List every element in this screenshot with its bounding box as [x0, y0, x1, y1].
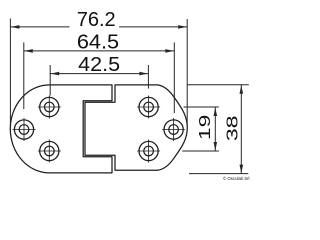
dimension 64.5: [24, 42, 175, 113]
hole H6 crosshair vertical: [173, 118, 175, 141]
dim 42.5 right extension line: [147, 65, 149, 89]
dim 64.5 left extension line: [23, 42, 25, 109]
hole H1 crosshair horizontal: [13, 129, 36, 131]
dim 76.2 dimension line right segment: [119, 26, 187, 28]
dim 42.5 left arrowhead: [51, 72, 60, 76]
screw hole left-middle: [13, 118, 36, 141]
svg-text:76.2: 76.2: [77, 9, 116, 31]
dimension 42.5: [50, 65, 148, 96]
right hinge leaf: [85, 85, 187, 170]
dimension 19: [182, 107, 219, 151]
screw hole right-bottom: [137, 140, 160, 163]
hole H3 left-bottom inner circle: [45, 146, 55, 156]
screw hole right-middle: [162, 118, 185, 141]
hole H4 right-top inner circle: [144, 102, 154, 112]
dim 38 bottom extension line: [189, 173, 248, 175]
hole H1 left-middle outer circle: [14, 120, 33, 139]
hole H2 left-top inner circle: [45, 102, 55, 112]
screw hole left-top: [38, 96, 61, 119]
hole H6 right-middle outer circle: [164, 120, 183, 139]
dim 64.5 dimension line: [24, 50, 175, 52]
dim 19 top extension line: [184, 106, 219, 108]
hole H2 crosshair vertical: [48, 96, 50, 119]
screw hole right-top: [137, 96, 160, 119]
dim 76.2 dimension line left segment: [10, 26, 69, 28]
hole H3 left-bottom outer circle: [40, 141, 59, 160]
hole H6 right-middle inner circle: [169, 125, 179, 135]
hole H5 right-bottom outer circle: [139, 141, 158, 160]
dim 64.5 right extension line: [173, 42, 175, 113]
dim 76.2 right arrowhead: [178, 25, 187, 29]
screw hole left-bottom: [38, 140, 61, 163]
dim 64.5 right arrowhead: [165, 49, 174, 53]
dim 42.5 left extension line: [49, 65, 51, 96]
dim 19 dimension line: [214, 107, 216, 151]
hole H5 crosshair vertical: [148, 140, 150, 163]
hole H2 left-top outer circle: [40, 97, 59, 116]
dim 19 top arrowhead: [214, 108, 218, 117]
hole H4 right-top outer circle: [139, 97, 158, 116]
dim 38 dimension line: [240, 85, 242, 174]
hole H3 crosshair horizontal: [38, 150, 61, 152]
hole H5 right-bottom inner circle: [144, 146, 154, 156]
hole H1 crosshair vertical: [23, 118, 25, 141]
dim 38 bottom arrowhead: [240, 165, 244, 174]
dim 19 bottom arrowhead: [214, 142, 218, 151]
hole H4 crosshair vertical: [148, 96, 150, 119]
hole H5 crosshair horizontal: [137, 150, 160, 152]
hole H2 crosshair horizontal: [38, 106, 61, 108]
svg-text:64.5: 64.5: [77, 31, 119, 53]
dim 76.2 right extension line: [186, 19, 188, 126]
svg-text:19: 19: [197, 114, 214, 140]
dim 38 top extension line: [187, 84, 249, 86]
dim 42.5 right arrowhead: [139, 72, 148, 76]
dim 64.5 left arrowhead: [24, 49, 33, 53]
dimension 76.2: [10, 19, 187, 127]
hole H6 crosshair horizontal: [162, 129, 185, 131]
svg-text:38: 38: [224, 115, 241, 141]
dimension 38: [187, 85, 249, 174]
hole H3 crosshair vertical: [48, 140, 50, 163]
dim 76.2 left arrowhead: [11, 25, 20, 29]
hole H4 crosshair horizontal: [137, 106, 160, 108]
dim 19 bottom extension line: [182, 150, 219, 152]
svg-text:42.5: 42.5: [78, 54, 120, 76]
dim 76.2 left extension line: [9, 19, 11, 127]
hole H1 left-middle inner circle: [19, 125, 29, 135]
dim 42.5 dimension line: [50, 73, 148, 75]
left hinge leaf: [10, 85, 112, 173]
svg-text:© Osculati Srl: © Osculati Srl: [223, 176, 250, 181]
dim 38 top arrowhead: [240, 85, 244, 94]
